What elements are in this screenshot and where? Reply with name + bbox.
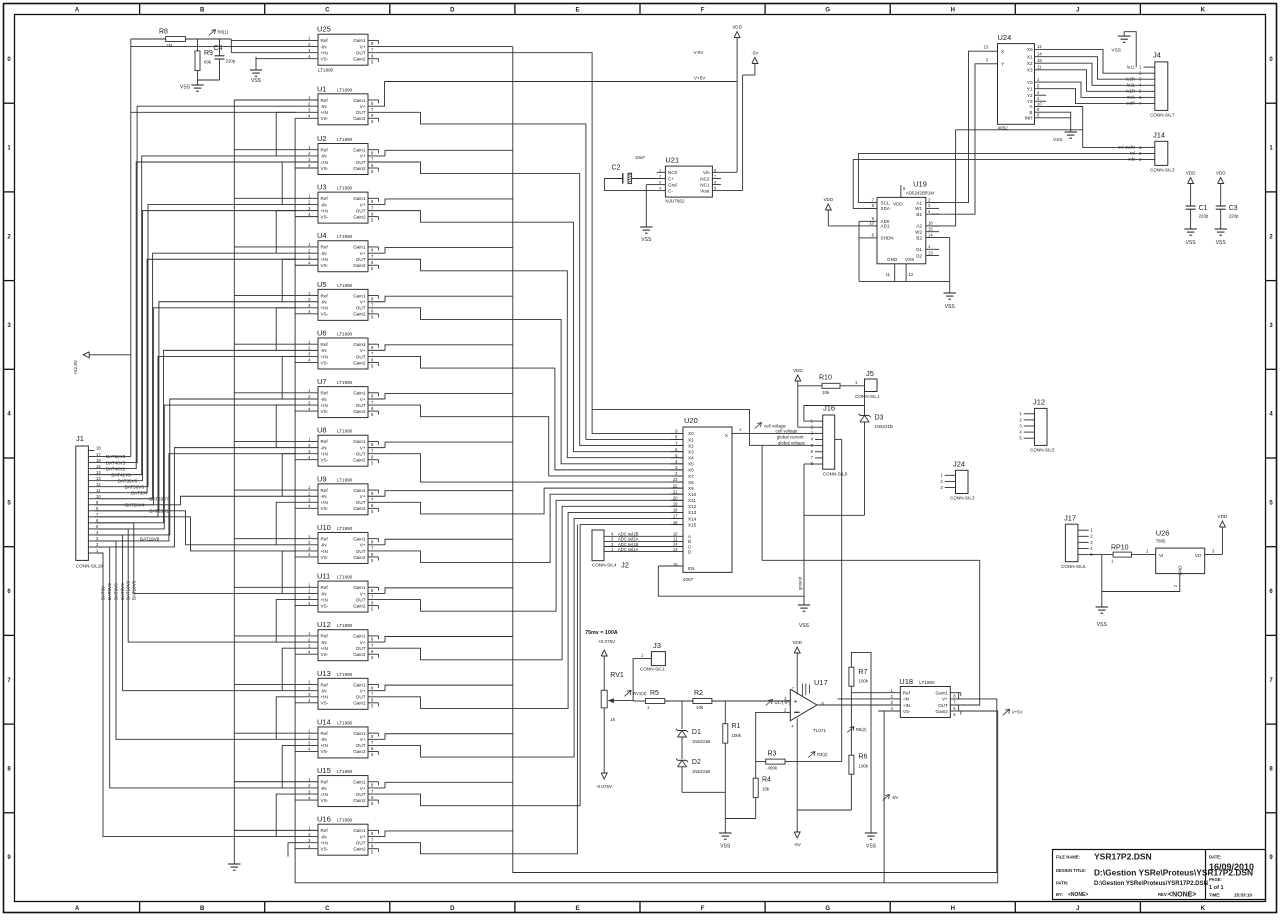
wire J1 pin11 to U4 -IN [95, 253, 297, 499]
op-amp U1 (LT1990) [296, 84, 385, 125]
svg-text:OUT: OUT [356, 549, 366, 554]
svg-text:Vout: Vout [700, 188, 710, 193]
svg-text:Gain1: Gain1 [936, 691, 949, 696]
svg-text:X10: X10 [688, 492, 697, 497]
svg-text:U19: U19 [913, 180, 927, 189]
svg-text:1M: 1M [166, 43, 172, 48]
op-amp U9 (LT1990) [296, 474, 385, 514]
svg-text:CONN-SIL4: CONN-SIL4 [592, 563, 617, 568]
svg-text:VSS: VSS [251, 78, 262, 84]
svg-text:V+: V+ [360, 397, 366, 402]
svg-text:+IN: +IN [321, 354, 328, 359]
svg-text:REV:: REV: [1158, 892, 1168, 897]
svg-text:V+: V+ [360, 737, 366, 742]
wire U17 feedback to R3 [841, 705, 843, 762]
svg-text:-IN: -IN [321, 689, 327, 694]
wire U14 V+ to +5V rail [385, 734, 513, 740]
svg-text:U25: U25 [317, 25, 331, 34]
svg-text:TIME:: TIME: [1209, 893, 1220, 898]
svg-text:7805: 7805 [1156, 539, 1166, 544]
svg-text:U2: U2 [317, 134, 327, 143]
svg-text:Ref: Ref [321, 585, 329, 590]
svg-text:CONN-SIL3: CONN-SIL3 [950, 496, 975, 501]
svg-text:LT1990: LT1990 [337, 380, 353, 385]
ground VSS below U19 [944, 293, 956, 310]
svg-text:J24: J24 [953, 460, 965, 469]
connector J16 (CONN-SIL8) [811, 404, 848, 477]
svg-text:X5: X5 [688, 462, 694, 467]
svg-text:VS-: VS- [321, 701, 329, 706]
svg-text:D:\Gestion YSRe\Proteus\YSR17P: D:\Gestion YSRe\Proteus\YSR17P2.DSN [1094, 881, 1208, 887]
svg-text:CONN-SIL5: CONN-SIL5 [1061, 564, 1086, 569]
zener diode D2 (1N5231B) [676, 737, 725, 792]
svg-text:-IN: -IN [321, 834, 327, 839]
svg-text:CONN-SIL1: CONN-SIL1 [855, 394, 880, 399]
svg-text:10k: 10k [822, 390, 830, 395]
svg-text:15: 15 [673, 562, 678, 567]
svg-text:D: D [450, 906, 455, 912]
svg-text:14: 14 [928, 232, 933, 237]
svg-text:U4: U4 [317, 231, 327, 240]
svg-text:12: 12 [96, 482, 101, 487]
svg-text:LT1990: LT1990 [337, 720, 353, 725]
connector J4 (CONN-SIL7) [1126, 51, 1175, 118]
svg-text:V+: V+ [360, 834, 366, 839]
svg-text:O2: O2 [916, 253, 923, 258]
svg-text:75mv = 100A: 75mv = 100A [585, 630, 618, 636]
svg-text:VDD: VDD [1216, 171, 1226, 176]
wire U25 VS- to ground [256, 58, 296, 60]
svg-text:A1: A1 [916, 200, 922, 205]
svg-text:U12: U12 [317, 620, 331, 629]
svg-text:VS-: VS- [321, 360, 329, 365]
svg-text:12: 12 [909, 272, 914, 277]
svg-text:LT1990: LT1990 [337, 87, 353, 92]
wire links +IN brackets [276, 112, 296, 836]
svg-text:VS-: VS- [321, 116, 329, 121]
svg-text:+IN: +IN [321, 840, 328, 845]
svg-text:R4: R4 [762, 777, 771, 784]
resistor R7 (100k) [849, 652, 871, 833]
wire U13 V+ to +5V rail [385, 685, 513, 691]
svg-text:Gain2: Gain2 [353, 116, 366, 121]
wire U11 V+ to +5V rail [385, 588, 513, 594]
svg-text:X15: X15 [688, 522, 697, 527]
svg-text:LT1990: LT1990 [337, 575, 353, 580]
svg-text:F: F [701, 906, 705, 912]
svg-text:VDD: VDD [792, 640, 802, 645]
ground VSS under U25 VS- [250, 57, 262, 84]
svg-text:Gain2: Gain2 [353, 798, 366, 803]
svg-text:+: + [794, 699, 798, 706]
svg-text:Gain1: Gain1 [353, 391, 366, 396]
svg-text:Ref: Ref [321, 245, 329, 250]
svg-text:Gain1: Gain1 [353, 682, 366, 687]
power VDD left of U19 [823, 197, 859, 226]
svg-text:W2: W2 [915, 230, 922, 235]
power VDD above U17 [792, 640, 802, 695]
svg-text:V+: V+ [942, 697, 948, 702]
svg-text:V+: V+ [360, 348, 366, 353]
svg-text:Gain1: Gain1 [353, 98, 366, 103]
svg-text:VS-: VS- [321, 846, 329, 851]
svg-text:LT1990: LT1990 [919, 680, 935, 685]
svg-text:X9: X9 [688, 486, 694, 491]
svg-text:U14: U14 [317, 717, 331, 726]
svg-text:-IN: -IN [321, 737, 327, 742]
svg-text:U21: U21 [665, 156, 679, 165]
ground VSS under R9 [180, 85, 204, 92]
svg-text:Gain1: Gain1 [353, 634, 366, 639]
svg-text:+0.075V: +0.075V [598, 639, 616, 644]
wire U12 V+ to +5V rail [385, 637, 513, 643]
wire J1 pin5 to U7 -IN [95, 399, 297, 535]
svg-text:K: K [1201, 8, 1206, 14]
wire U15 OUT to U20 X15 [385, 525, 683, 806]
svg-text:Gain1: Gain1 [353, 293, 366, 298]
svg-text:100k: 100k [859, 679, 869, 684]
svg-text:+IN: +IN [321, 208, 328, 213]
svg-text:X6: X6 [688, 468, 694, 473]
net label R8(1) [209, 30, 229, 36]
op-amp U6 (LT1990) [296, 328, 385, 369]
wire J1 pin2 to U15 -IN [95, 547, 297, 788]
svg-text:100k: 100k [859, 764, 869, 769]
J1 pins 1-18 [88, 446, 101, 553]
svg-text:LT1990: LT1990 [337, 672, 353, 677]
svg-text:SDA: SDA [881, 206, 891, 211]
svg-text:VS-: VS- [321, 57, 329, 62]
wire U16 OUT to U20 X15 [385, 525, 577, 854]
svg-text:Ref: Ref [321, 38, 329, 43]
wire U8 V+ to +5V rail [385, 442, 513, 448]
svg-text:10: 10 [96, 494, 101, 499]
svg-text:13: 13 [928, 250, 933, 255]
svg-text:+IN: +IN [321, 792, 328, 797]
svg-text:V+: V+ [360, 543, 366, 548]
svg-text:J: J [1076, 906, 1079, 912]
svg-text:220p: 220p [1199, 214, 1209, 219]
wire U1 V+ to +5V [384, 82, 386, 107]
svg-text:X13: X13 [688, 510, 697, 515]
svg-text:VS-: VS- [321, 263, 329, 268]
svg-text:16: 16 [928, 221, 933, 226]
svg-text:J: J [1076, 8, 1079, 14]
svg-text:VS-: VS- [321, 798, 329, 803]
ground wire / VSS under U20 area [798, 464, 816, 629]
svg-text:J3: J3 [653, 641, 661, 650]
svg-text:D2: D2 [692, 759, 701, 766]
svg-text:V+: V+ [360, 104, 366, 109]
svg-text:Ref: Ref [321, 682, 329, 687]
wire U8 OUT to U20 X8 [385, 454, 683, 482]
svg-text:R2: R2 [694, 690, 703, 697]
svg-text:RV1(3): RV1(3) [633, 691, 647, 696]
wire J1 pin5 to U12 -IN [95, 529, 297, 642]
ground VSS below R7 rail [865, 833, 877, 850]
svg-text:13: 13 [96, 476, 101, 481]
svg-text:CONN-SIL7: CONN-SIL7 [1150, 113, 1175, 118]
svg-text:B: B [1029, 110, 1032, 115]
connector J24 (CONN-SIL3) [940, 460, 975, 501]
svg-text:OUT: OUT [356, 354, 366, 359]
svg-text:-IN: -IN [321, 154, 327, 159]
svg-text:-IN: -IN [903, 697, 909, 702]
svg-text:RV1: RV1 [610, 672, 624, 679]
svg-text:C4: C4 [214, 45, 223, 52]
svg-text:VSS: VSS [799, 623, 810, 629]
svg-text:13: 13 [983, 45, 988, 50]
wire J1 pin9 to U9 -IN [95, 496, 297, 505]
svg-text:1 of 1: 1 of 1 [1209, 885, 1224, 891]
svg-text:X0: X0 [1027, 47, 1033, 52]
net label V+5V [1003, 709, 1023, 715]
wire U10 OUT to U20 X10 [385, 494, 683, 562]
svg-text:-IN: -IN [321, 445, 327, 450]
svg-text:G: G [825, 906, 830, 912]
svg-text:-IN: -IN [321, 104, 327, 109]
svg-text:VO: VO [1195, 553, 1202, 558]
svg-text:-IN: -IN [321, 591, 327, 596]
power arrow +52.8V [73, 352, 131, 375]
svg-text:Ref: Ref [321, 828, 329, 833]
zener diode D1 (1N5231B) [676, 701, 710, 744]
svg-text:E: E [575, 8, 579, 14]
wire U16 V+ to +5V rail [385, 831, 513, 837]
power -5V below U17 [794, 718, 802, 847]
svg-text:EN: EN [688, 566, 694, 571]
svg-text:V+5V: V+5V [694, 75, 706, 80]
svg-text:Gain2: Gain2 [353, 555, 366, 560]
svg-text:C-: C- [668, 188, 673, 193]
op-amp U18 (LT1990) [878, 677, 967, 718]
svg-text:LT1990: LT1990 [337, 429, 353, 434]
svg-text:Ref: Ref [321, 439, 329, 444]
svg-text:220p: 220p [1229, 214, 1239, 219]
svg-text:Ref: Ref [321, 488, 329, 493]
svg-text:LT1990: LT1990 [337, 526, 353, 531]
svg-text:R3(2): R3(2) [817, 752, 828, 757]
wire J1 to U2 +IN [95, 162, 297, 469]
svg-text:17: 17 [673, 514, 678, 519]
svg-text:VS-: VS- [321, 166, 329, 171]
wire J1 pin3 to U14 -IN [95, 541, 297, 739]
wire U18 OUT to global voltage [762, 445, 980, 705]
svg-text:V+5V: V+5V [1012, 710, 1023, 715]
svg-text:U7: U7 [317, 377, 327, 386]
svg-text:R3: R3 [768, 751, 777, 758]
svg-text:K: K [1201, 906, 1206, 912]
resistor R8 [159, 29, 185, 49]
power VDD above J16 [793, 368, 815, 427]
svg-text:VS-: VS- [321, 652, 329, 657]
svg-text:VS-: VS- [321, 749, 329, 754]
wire U18 inputs [851, 692, 878, 694]
resistor R4 (10k) [725, 762, 771, 819]
svg-text:le1L: le1L [1127, 64, 1136, 69]
svg-text:O1: O1 [916, 247, 923, 252]
svg-text:Gain1: Gain1 [353, 731, 366, 736]
svg-text:OUT: OUT [356, 695, 366, 700]
wire J1 pin3 to U8 -IN [95, 448, 297, 547]
wire scl bus [858, 153, 1143, 202]
svg-text:J12: J12 [1033, 398, 1045, 407]
wire U18 VS- to -5V rail [878, 711, 884, 883]
svg-text:<NONE>: <NONE> [1068, 892, 1088, 898]
svg-text:U18: U18 [899, 677, 913, 686]
wire U24 B INH to VSS [1046, 112, 1071, 132]
svg-text:VS-: VS- [321, 409, 329, 414]
svg-text:YSR17P2.DSN: YSR17P2.DSN [1094, 852, 1152, 862]
svg-text:VSS: VSS [1053, 137, 1063, 143]
wire U7 V+ to +5V rail [385, 393, 513, 399]
svg-text:+IN: +IN [321, 597, 328, 602]
svg-text:+IN: +IN [903, 703, 910, 708]
svg-text:-IN: -IN [321, 543, 327, 548]
svg-text:VS-: VS- [321, 458, 329, 463]
ground VSS below J17 [1096, 607, 1108, 628]
op-amp U10 (LT1990) [296, 523, 385, 564]
wire J1 to U4 +IN [95, 259, 297, 492]
resistor RP10 [1089, 545, 1156, 564]
svg-text:LT1990: LT1990 [337, 283, 353, 288]
wire U18 Gain brackets [958, 693, 960, 711]
svg-text:+IN: +IN [321, 500, 328, 505]
wire C2 to U21 [604, 179, 656, 191]
svg-text:C2: C2 [612, 165, 621, 172]
svg-text:Gain1: Gain1 [353, 488, 366, 493]
svg-text:R6(2): R6(2) [856, 727, 867, 732]
svg-text:A: A [75, 8, 80, 14]
svg-text:Ref: Ref [321, 196, 329, 201]
svg-text:4: 4 [791, 725, 793, 729]
op-amp U4 (LT1990) [296, 231, 385, 271]
svg-text:D: D [450, 8, 455, 14]
svg-text:Vin: Vin [703, 170, 710, 175]
svg-text:CONN-SIL18: CONN-SIL18 [76, 564, 104, 569]
resistor R9 [195, 50, 213, 71]
svg-text:+IN: +IN [321, 160, 328, 165]
wire J1 pin4 to U13 -IN [95, 535, 297, 691]
svg-text:11: 11 [886, 272, 891, 277]
wire J1 to U5 +IN [95, 308, 297, 505]
svg-text:U20: U20 [684, 416, 698, 425]
op-amp U3 (LT1990) [296, 183, 385, 224]
svg-text:Y3: Y3 [1027, 99, 1033, 104]
op-amp U17 (TL071) [784, 678, 828, 733]
svg-text:60k: 60k [204, 60, 212, 65]
svg-text:U9: U9 [317, 474, 327, 483]
svg-text:Gain1: Gain1 [353, 38, 366, 43]
wire U1 V+ to +5V rail [384, 105, 387, 107]
svg-text:sel audio: sel audio [1118, 145, 1135, 150]
svg-text:LT1990: LT1990 [337, 623, 353, 628]
svg-text:16: 16 [96, 458, 101, 463]
svg-text:H: H [951, 8, 955, 14]
analog mux U20 (4067) [604, 416, 746, 582]
regulator U26 (7805) [1156, 529, 1223, 576]
wire J1 pin15 to U2 -IN [95, 156, 297, 475]
svg-text:Gain1: Gain1 [353, 342, 366, 347]
wire U2 OUT to U20 X2 [385, 162, 683, 446]
svg-text:<NONE>: <NONE> [1168, 892, 1196, 899]
svg-text:23: 23 [673, 477, 678, 482]
svg-text:400k: 400k [768, 766, 778, 771]
svg-text:17: 17 [96, 452, 101, 457]
svg-text:V+: V+ [360, 591, 366, 596]
svg-text:LT1990: LT1990 [337, 234, 353, 239]
svg-text:14: 14 [96, 470, 101, 475]
svg-text:10: 10 [1037, 101, 1042, 106]
capacitor C3 (220p) [1215, 171, 1240, 247]
op-amp U13 (LT1990) [296, 669, 385, 710]
svg-text:LT1990: LT1990 [337, 186, 353, 191]
svg-text:VSS: VSS [1216, 240, 1227, 246]
svg-text:1N5231B: 1N5231B [692, 769, 710, 774]
svg-text:J14: J14 [1153, 131, 1165, 140]
wire U20 EN to VSS [658, 566, 804, 596]
svg-text:15: 15 [928, 227, 933, 232]
op-amp U7 (LT1990) [296, 377, 385, 418]
svg-text:18: 18 [96, 446, 101, 451]
wire U20 X output to J16 cell voltage [746, 432, 815, 434]
svg-text:W1: W1 [915, 206, 922, 211]
svg-text:VS-: VS- [321, 555, 329, 560]
wire U5 V+ to +5V rail [385, 296, 513, 302]
svg-text:Gain2: Gain2 [353, 409, 366, 414]
svg-text:Gain1: Gain1 [353, 148, 366, 153]
svg-text:A2: A2 [916, 224, 922, 229]
svg-text:J4: J4 [1153, 51, 1161, 60]
svg-text:RP10: RP10 [1111, 545, 1129, 552]
wire U24 Y0 to J4 [1046, 82, 1144, 97]
wire U4 OUT to U20 X4 [385, 259, 683, 457]
svg-text:X14: X14 [688, 516, 697, 521]
svg-text:J5: J5 [866, 369, 874, 378]
svg-text:V+: V+ [360, 494, 366, 499]
net label cell voltage (left) [755, 423, 787, 429]
op-amp U15 (LT1990) [296, 766, 385, 807]
svg-text:U11: U11 [317, 572, 330, 581]
net labels BAT taps [101, 454, 170, 600]
svg-text:Gain1: Gain1 [353, 780, 366, 785]
svg-text:Ref: Ref [321, 98, 329, 103]
svg-text:Gain2: Gain2 [353, 652, 366, 657]
svg-text:Gain1: Gain1 [353, 196, 366, 201]
power VDD above U21 [721, 25, 743, 173]
svg-text:220p: 220p [226, 59, 236, 64]
wire U24 X0 to J4 [1046, 49, 1144, 73]
svg-text:Gain2: Gain2 [353, 749, 366, 754]
svg-text:VS-: VS- [321, 506, 329, 511]
svg-text:10k: 10k [696, 705, 704, 710]
wire Ref rail [234, 100, 296, 864]
wire J1 pin7 to U6 -IN [95, 350, 297, 522]
wire J16 pin1 pull-up loop [804, 392, 865, 422]
resistor R10 [798, 375, 865, 396]
svg-text:R1: R1 [732, 723, 741, 730]
wire VS- rail to -5V bottom rail [295, 118, 998, 883]
connector J2 (CONN-SIL4) [592, 530, 639, 570]
svg-text:Gain2: Gain2 [353, 458, 366, 463]
svg-text:Ref: Ref [321, 148, 329, 153]
wire J1 pin17 to U1 +IN (BAT52V8) [95, 112, 297, 456]
svg-text:LT1990: LT1990 [337, 769, 353, 774]
wire U25 Ref to R8 node [231, 39, 296, 41]
svg-text:+IN: +IN [321, 549, 328, 554]
svg-text:VSS: VSS [1111, 48, 1121, 54]
svg-text:Gain1: Gain1 [353, 585, 366, 590]
